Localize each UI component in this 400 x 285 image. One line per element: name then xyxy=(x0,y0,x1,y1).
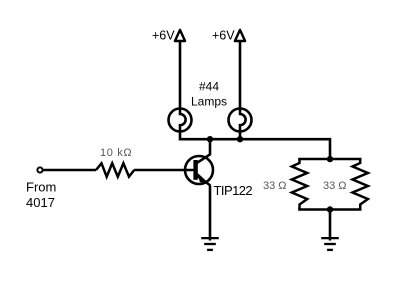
svg-text:+6V: +6V xyxy=(212,29,235,43)
wire: +6V left arrow to lamp DS1 xyxy=(179,41,182,109)
power +6V arrow (right) xyxy=(235,30,245,41)
label #44 Lamps xyxy=(191,79,227,108)
wire: R1 to Q1 base xyxy=(134,169,196,172)
wire: input terminal to R1 xyxy=(43,169,96,172)
resistor R3 33 Ω (right) xyxy=(353,159,368,210)
svg-text:Lamps: Lamps xyxy=(191,95,227,109)
svg-text:10 kΩ: 10 kΩ xyxy=(100,147,132,159)
resistor R1 10 kΩ xyxy=(96,163,134,176)
wire: lamp DS1 to bus and down to resistor bank top rail xyxy=(180,132,330,160)
wire: Q1 emitter to ground xyxy=(209,186,212,241)
ground (resistor bank) xyxy=(321,238,339,250)
svg-text:#44: #44 xyxy=(199,79,219,93)
ground (emitter) xyxy=(201,238,219,250)
node: top rail junction xyxy=(327,156,333,162)
svg-text:33 Ω: 33 Ω xyxy=(263,180,287,192)
svg-text:4017: 4017 xyxy=(26,195,55,210)
svg-text:+6V: +6V xyxy=(152,29,175,43)
lamp DS2 xyxy=(229,108,252,132)
wire: resistor bank bottom rail xyxy=(300,208,361,211)
wire: Q1 collector to bus xyxy=(209,139,212,155)
lamp DS1 xyxy=(169,108,192,132)
power +6V arrow (left) xyxy=(175,30,185,41)
transistor Q1 TIP122 xyxy=(185,154,213,185)
svg-text:TIP122: TIP122 xyxy=(214,183,253,198)
svg-text:From: From xyxy=(26,180,56,195)
wire: lamp DS2 to bus xyxy=(239,132,242,140)
wire: resistor bank top rail xyxy=(300,158,361,161)
label From 4017 xyxy=(26,180,56,211)
resistor R2 33 Ω (left) xyxy=(292,159,307,210)
wire: +6V right arrow to lamp DS2 xyxy=(239,41,242,109)
input terminal (from 4017) xyxy=(37,167,42,172)
wire: bottom rail to ground xyxy=(329,210,332,241)
svg-text:33 Ω: 33 Ω xyxy=(323,180,347,192)
node: lamp DS2 junction on bus xyxy=(237,136,243,142)
node: bottom rail junction xyxy=(327,206,333,212)
node: collector junction on bus xyxy=(207,136,213,142)
